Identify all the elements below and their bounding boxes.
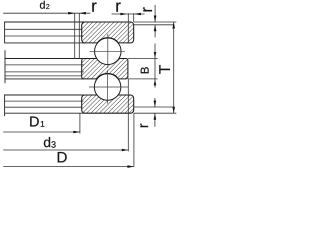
label d2 — [40, 1, 45, 9]
left view middle washer outline bottom edge — [5, 78, 84, 80]
extension line D lower — [133, 113, 135, 166]
extension line D1 lower — [79, 113, 81, 133]
r dimension vertical top-right lower part — [154, 25, 156, 38]
arrow B top — [154, 52, 157, 59]
T dimension line — [173, 22, 175, 113]
B extension bottom — [128, 78, 158, 80]
extension line d2 bore — [74, 13, 76, 58]
r chamfer extension bottom — [134, 106, 174, 108]
centerline axis segment top — [4, 22, 6, 44]
extension line D1 bore upper — [78, 13, 80, 58]
label r second — [116, 3, 120, 12]
dimension line d3 — [3, 149, 128, 151]
dimension line r2 top-right — [112, 13, 145, 15]
arrow B bottom — [154, 79, 157, 86]
dimension line d2 and r top-left — [3, 12, 90, 14]
middle shaft washer section — [82, 52, 128, 79]
arrow r4 down — [154, 101, 157, 108]
B extension top — [128, 58, 158, 60]
T extension top — [134, 21, 177, 23]
r chamfer extension top — [134, 24, 174, 26]
dimension line D1 — [3, 131, 80, 133]
left view middle washer outline top edge — [5, 58, 84, 60]
arrow T top — [172, 22, 175, 29]
ball upper crosshair horizontal — [90, 50, 126, 52]
centerline axis segment middle — [4, 50, 6, 83]
arrow D1 — [73, 131, 80, 134]
label r rotated top-right — [143, 7, 152, 11]
T extension bottom — [134, 112, 177, 114]
r dimension vertical top-right upper part — [154, 5, 156, 22]
ball lower crosshair vertical — [107, 70, 109, 104]
centerline axis segment bottom — [4, 94, 6, 116]
extension line D upper stub — [133, 13, 135, 22]
r dimension vertical bottom-right upper part — [154, 98, 156, 107]
label r rotated bottom-right — [140, 124, 148, 128]
extension line d3 lower — [127, 79, 129, 151]
label D — [58, 152, 67, 162]
arrow d3 — [122, 149, 129, 152]
label B rotated — [141, 67, 149, 73]
label d3 — [44, 137, 50, 147]
ball lower crosshair horizontal — [89, 86, 128, 88]
bottom housing washer section — [82, 89, 134, 113]
B dimension tail upper — [154, 44, 156, 59]
left view top washer outline top edge — [5, 21, 85, 23]
arrow r1 — [79, 12, 86, 15]
left view bottom washer outline top edge — [5, 94, 85, 96]
arrow D — [127, 165, 133, 168]
top housing washer section — [82, 22, 134, 43]
B dimension line — [154, 59, 156, 79]
left view top washer outline bottom edge — [5, 42, 85, 44]
arrow r4 up — [154, 113, 157, 120]
B dimension tail lower — [154, 79, 156, 88]
ball upper — [95, 38, 122, 65]
ball lower — [94, 74, 121, 101]
label D1 — [30, 117, 39, 127]
arrow r3 down — [154, 16, 157, 23]
arrow T bottom — [172, 107, 175, 114]
left view bottom washer face lines — [5, 100, 84, 102]
arrow r2 left — [120, 13, 127, 16]
arrow r3 up — [154, 25, 157, 32]
left view middle washer face lines — [5, 64, 84, 66]
r dimension vertical bottom-right lower part — [154, 113, 156, 127]
arrow r2 right — [134, 13, 141, 16]
label T rotated — [159, 65, 170, 74]
left view top washer face lines — [5, 28, 83, 30]
dimension line D — [3, 166, 134, 168]
label r first — [92, 3, 96, 12]
extension line d3 upper — [127, 13, 129, 43]
arrow d2 — [68, 12, 75, 15]
left view bottom washer outline bottom edge — [5, 112, 85, 114]
ball upper crosshair vertical — [107, 34, 109, 68]
